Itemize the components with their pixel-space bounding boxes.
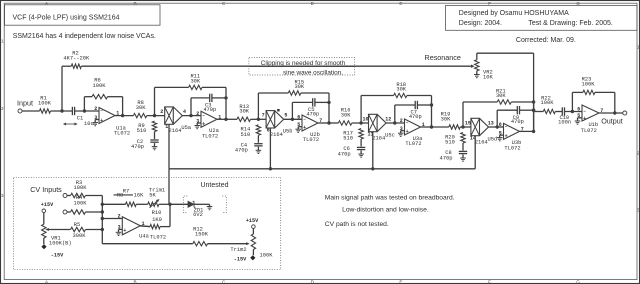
svg-text:100K: 100K <box>93 83 107 89</box>
svg-text:-15V: -15V <box>51 253 64 259</box>
svg-text:R8: R8 <box>117 193 123 199</box>
svg-text:100K: 100K <box>38 101 52 107</box>
svg-text:2: 2 <box>160 109 163 115</box>
svg-text:TL072: TL072 <box>202 133 218 139</box>
svg-text:5: 5 <box>284 113 287 119</box>
svg-text:510: 510 <box>445 140 455 146</box>
svg-text:100K(B): 100K(B) <box>49 240 72 246</box>
svg-text:E: E <box>399 280 402 284</box>
svg-text:+: + <box>123 228 126 234</box>
svg-text:U5c: U5c <box>385 132 395 138</box>
svg-text:−: − <box>303 118 306 123</box>
svg-text:F: F <box>488 280 491 284</box>
svg-text:R5: R5 <box>74 222 80 228</box>
svg-text:TL072: TL072 <box>303 137 319 143</box>
svg-text:300K: 300K <box>73 233 87 239</box>
svg-text:15: 15 <box>465 120 471 126</box>
svg-text:470p: 470p <box>203 107 216 113</box>
svg-text:R7: R7 <box>123 189 129 195</box>
svg-text:470p: 470p <box>306 111 319 117</box>
svg-text:100n: 100n <box>558 120 571 126</box>
svg-text:30K: 30K <box>294 84 304 90</box>
svg-text:12: 12 <box>385 116 391 122</box>
svg-text:30K: 30K <box>190 79 200 85</box>
svg-text:Untested: Untested <box>200 182 228 189</box>
svg-text:Trim2: Trim2 <box>230 247 246 253</box>
svg-text:B: B <box>134 1 137 6</box>
svg-text:470p: 470p <box>131 144 144 150</box>
svg-text:30K: 30K <box>496 93 506 99</box>
svg-text:Output: Output <box>601 116 623 125</box>
svg-text:TL072: TL072 <box>581 128 597 134</box>
svg-text:100K: 100K <box>582 81 596 87</box>
svg-text:100K: 100K <box>74 200 88 206</box>
svg-text:2164: 2164 <box>270 132 283 138</box>
svg-text:TL072: TL072 <box>114 130 130 136</box>
svg-text:470p: 470p <box>409 114 422 120</box>
svg-text:+15V: +15V <box>41 202 54 208</box>
svg-text:2: 2 <box>400 118 403 124</box>
svg-text:−: − <box>100 109 103 114</box>
svg-text:U5a: U5a <box>181 125 191 131</box>
svg-text:TL072: TL072 <box>405 141 421 147</box>
svg-text:10K: 10K <box>483 74 493 80</box>
svg-text:2164: 2164 <box>372 136 385 142</box>
svg-text:100K: 100K <box>74 185 88 191</box>
svg-text:30K: 30K <box>341 112 351 118</box>
svg-text:30K: 30K <box>441 116 451 122</box>
svg-text:6: 6 <box>499 122 502 128</box>
svg-text:+: + <box>202 121 205 127</box>
svg-text:SSM2164 has 4 independent low: SSM2164 has 4 independent low noise VCAs… <box>13 33 156 40</box>
svg-text:U5b: U5b <box>283 129 293 135</box>
svg-text:−: − <box>406 121 409 126</box>
svg-text:CV path is not tested.: CV path is not tested. <box>325 221 389 228</box>
svg-text:3: 3 <box>1 193 4 198</box>
svg-text:−: − <box>583 110 586 115</box>
svg-text:510: 510 <box>241 132 251 138</box>
svg-text:R10: R10 <box>152 210 162 216</box>
svg-text:TL072: TL072 <box>504 145 520 151</box>
svg-text:30K: 30K <box>396 87 406 93</box>
svg-text:G: G <box>576 280 580 284</box>
svg-text:sine wave oscillation.: sine wave oscillation. <box>283 69 343 76</box>
svg-text:2: 2 <box>118 214 121 220</box>
svg-text:1: 1 <box>1 39 4 44</box>
svg-text:B: B <box>134 280 137 284</box>
svg-text:Clipping is needed for smooth: Clipping is needed for smooth <box>261 60 346 67</box>
svg-text:2164: 2164 <box>169 128 182 134</box>
svg-text:30K: 30K <box>136 105 146 111</box>
svg-text:+: + <box>505 134 508 140</box>
svg-text:4K7--20K: 4K7--20K <box>63 56 90 62</box>
svg-text:2164: 2164 <box>475 140 488 146</box>
svg-text:470p: 470p <box>511 119 524 125</box>
svg-text:470p: 470p <box>338 151 351 157</box>
svg-text:−: − <box>202 114 205 119</box>
svg-text:6V2: 6V2 <box>193 212 203 218</box>
svg-text:2: 2 <box>1 106 4 111</box>
svg-text:-15V: -15V <box>234 257 247 263</box>
svg-text:5K: 5K <box>149 193 156 199</box>
svg-text:C1: C1 <box>77 116 83 122</box>
svg-text:Designed by Osamu HOSHUYAMA: Designed by Osamu HOSHUYAMA <box>459 10 569 17</box>
svg-text:−: − <box>124 217 127 222</box>
svg-text:+: + <box>100 118 103 124</box>
svg-text:Low-distortion and low-noise.: Low-distortion and low-noise. <box>342 207 429 214</box>
svg-text:30K: 30K <box>239 109 249 115</box>
svg-text:Test & Drawing: Feb. 2005.: Test & Drawing: Feb. 2005. <box>528 20 612 27</box>
svg-text:+: + <box>583 116 586 122</box>
svg-text:7: 7 <box>262 113 265 119</box>
svg-text:+: + <box>406 129 409 135</box>
svg-text:6: 6 <box>577 107 580 113</box>
svg-text:+: + <box>303 125 306 131</box>
svg-text:1K0: 1K0 <box>152 217 162 223</box>
svg-text:510: 510 <box>137 128 147 134</box>
svg-text:16K: 16K <box>134 193 144 199</box>
svg-text:+15V: +15V <box>246 218 259 224</box>
svg-text:6: 6 <box>297 115 300 121</box>
svg-text:Design: 2004.: Design: 2004. <box>459 20 502 27</box>
svg-text:Input: Input <box>17 99 33 108</box>
svg-text:U5d: U5d <box>488 136 498 142</box>
svg-text:510: 510 <box>343 136 353 142</box>
svg-text:100K: 100K <box>541 100 555 106</box>
svg-text:TL072: TL072 <box>150 234 166 240</box>
svg-text:150K: 150K <box>195 231 209 237</box>
svg-text:Corrected: Mar. 09.: Corrected: Mar. 09. <box>516 37 576 44</box>
svg-text:Resonance: Resonance <box>425 53 461 62</box>
svg-text:4: 4 <box>183 109 186 115</box>
svg-text:Main signal path was tested on: Main signal path was tested on breadboar… <box>325 194 455 201</box>
svg-text:10u: 10u <box>84 121 94 127</box>
svg-text:470p: 470p <box>440 155 453 161</box>
svg-text:−: − <box>505 125 508 130</box>
svg-text:13: 13 <box>488 120 494 126</box>
svg-text:470p: 470p <box>235 148 248 154</box>
svg-text:CV Inputs: CV Inputs <box>30 185 62 194</box>
svg-text:100K: 100K <box>260 252 274 258</box>
svg-text:U4a: U4a <box>139 234 149 240</box>
svg-text:2: 2 <box>196 111 199 117</box>
svg-text:E: E <box>399 1 402 6</box>
svg-text:VCF (4-Pole LPF) using SSM2164: VCF (4-Pole LPF) using SSM2164 <box>13 14 120 21</box>
svg-text:2: 2 <box>94 106 97 112</box>
svg-text:10: 10 <box>362 116 368 122</box>
